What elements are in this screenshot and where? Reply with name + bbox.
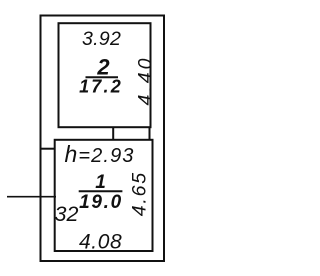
svg-text:h=2.93: h=2.93 [65, 141, 135, 167]
wall stub from outer contour to room 1 [40, 148, 55, 150]
partition divider between rooms [112, 127, 114, 140]
right closure between rooms [149, 127, 151, 140]
svg-text:32: 32 [55, 202, 79, 226]
room 2 fraction line [86, 76, 119, 78]
svg-text:19.0: 19.0 [79, 192, 123, 213]
svg-text:4.65: 4.65 [129, 171, 151, 216]
svg-text:1: 1 [95, 172, 106, 193]
svg-text:17.2: 17.2 [79, 76, 123, 96]
left dimension tick [7, 196, 56, 198]
room 1 fraction line [79, 190, 123, 192]
room 2 outline [59, 23, 151, 127]
room 1 outline [55, 140, 153, 251]
svg-text:4.40: 4.40 [135, 56, 157, 106]
outer wall contour [41, 16, 165, 262]
svg-text:4.08: 4.08 [79, 230, 122, 253]
svg-text:3.92: 3.92 [82, 28, 121, 50]
